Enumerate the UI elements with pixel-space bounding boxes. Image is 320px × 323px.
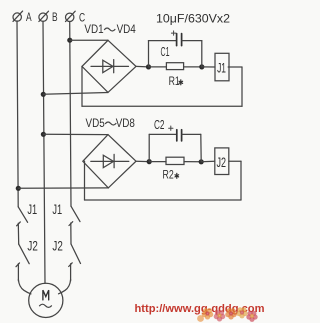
relay coil J2 [215, 148, 229, 175]
svg-text:R2: R2 [163, 167, 174, 181]
wire return1 left [81, 66, 83, 106]
svg-text:J1: J1 [52, 202, 62, 217]
capacitor C2 branch riser left [148, 134, 150, 161]
svg-text:B: B [52, 10, 58, 24]
bridge rectifier VD1~VD4 [82, 40, 136, 92]
wire bridge1 + output [136, 65, 149, 68]
node bridge1 output right [199, 64, 204, 69]
svg-text:C2: C2 [154, 117, 165, 132]
node B junction 2 [41, 132, 46, 137]
node bridge2 output right [199, 159, 204, 164]
capacitor C1 [177, 34, 182, 46]
node bridge2 output left [147, 159, 152, 164]
terminal B [39, 11, 49, 21]
C2 polarity + [169, 126, 173, 130]
node C junction [67, 38, 72, 43]
wire C2 to riser right [182, 133, 201, 135]
svg-text:VD1: VD1 [84, 24, 103, 36]
contact tick [69, 222, 73, 226]
wire return1 right [241, 67, 243, 106]
wire bridge2 + output [136, 160, 149, 162]
motor tilde [40, 304, 52, 307]
contact tick [16, 263, 20, 267]
bridge rectifier VD5~VD8 [83, 135, 136, 188]
wire phase B column [43, 21, 45, 283]
contact J1 phase A [18, 207, 27, 223]
label R1* [169, 74, 183, 88]
wire C to motor [59, 280, 71, 294]
wire A lower [17, 264, 19, 281]
contact tick [17, 222, 21, 226]
wire C to bridge1 AC [70, 39, 108, 41]
wire R1 to node [184, 66, 202, 68]
contact tick [69, 263, 73, 267]
wire return2 right [240, 161, 242, 200]
wire B to bridge1 AC [43, 93, 108, 95]
wire C1 to riser right [182, 40, 202, 42]
contact J2 phase C [71, 244, 81, 264]
svg-text:A: A [26, 10, 32, 24]
wire J2 return top [229, 160, 241, 162]
wire to R1 [149, 66, 167, 68]
svg-text:C1: C1 [161, 44, 170, 59]
capacitor C1 branch riser left [148, 41, 150, 67]
wire to C1 plate [149, 40, 177, 42]
label R2* [163, 167, 179, 181]
resistor R1 [166, 63, 183, 70]
wire to C2 plate [149, 133, 176, 135]
wire A to motor [18, 280, 31, 294]
label M [43, 290, 49, 300]
wire R2 to node [184, 161, 201, 163]
node bridge1 output left [146, 64, 151, 69]
watermark flowers [197, 307, 258, 322]
contact J2 phase A [19, 244, 30, 264]
capacitor C1 branch riser right [201, 41, 203, 67]
label VD1~VD4 [84, 24, 136, 36]
svg-text:J2: J2 [52, 238, 62, 253]
wire return2 left [84, 161, 86, 200]
svg-text:VD8: VD8 [116, 118, 135, 130]
node B junction 1 [41, 92, 46, 97]
motor M [29, 283, 63, 317]
wire phase A column [17, 21, 18, 207]
svg-text:VD4: VD4 [117, 24, 137, 36]
label VD5~VD8 [86, 118, 135, 130]
svg-text:J1: J1 [217, 60, 226, 76]
terminal C [66, 11, 76, 21]
wire C lower [70, 264, 72, 281]
tilde of VD1~VD4 [105, 28, 115, 31]
wire return2 bottom [85, 199, 242, 201]
wire phase C column [70, 22, 71, 207]
node A junction [16, 186, 21, 191]
relay coil J1 [215, 53, 229, 81]
contact J1 phase C [71, 206, 80, 221]
capacitor C2 branch riser right [200, 134, 202, 161]
terminal A [13, 11, 23, 21]
svg-text:10μF/630Vx2: 10μF/630Vx2 [156, 11, 230, 25]
C1 polarity + [171, 31, 175, 35]
wire node to J1 [202, 66, 215, 68]
svg-text:J2: J2 [217, 154, 227, 170]
svg-text:J1: J1 [27, 202, 37, 217]
wire J1 return top [228, 66, 242, 68]
wire B to bridge2 AC [43, 133, 108, 135]
wire to R2 [149, 161, 166, 163]
wire node to J2 [201, 160, 215, 163]
capacitor C2 [177, 130, 182, 141]
svg-text:J2: J2 [27, 238, 37, 253]
resistor R2 [166, 157, 184, 164]
wire A mid [17, 223, 19, 244]
svg-text:VD5: VD5 [86, 118, 105, 130]
svg-text:R1: R1 [169, 74, 180, 88]
wire return1 bottom [82, 105, 242, 107]
wire A to bridge2 AC [18, 187, 108, 189]
wire C mid [70, 223, 72, 244]
svg-text:C: C [79, 10, 85, 24]
tilde of VD5~VD8 [106, 122, 116, 125]
